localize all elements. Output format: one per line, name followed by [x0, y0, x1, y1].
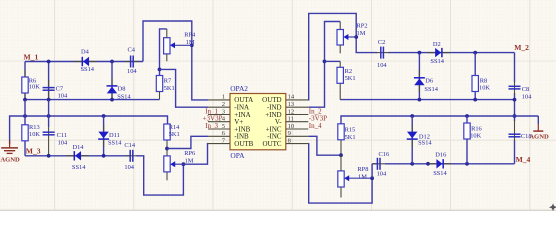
label C11 [57, 132, 68, 146]
svg-text:104: 104 [522, 93, 532, 100]
svg-text:5K1: 5K1 [164, 85, 175, 92]
wiper RP2 arrow [343, 34, 356, 40]
svg-text:M_2: M_2 [514, 43, 529, 52]
junction rail1 end [513, 98, 517, 102]
svg-text:5K1: 5K1 [345, 134, 356, 141]
label R15 [345, 127, 356, 141]
wire C7 branch [48, 62, 50, 100]
wire C2 to M_2 [389, 52, 515, 54]
label C16 [377, 151, 390, 177]
junction R2 top [323, 60, 327, 64]
wire wiper to C16 [372, 164, 377, 178]
svg-text:104: 104 [58, 139, 68, 146]
junction rail2 C11 [47, 114, 51, 118]
svg-text:D11: D11 [109, 132, 120, 139]
label AGND right [529, 134, 549, 141]
svg-text:1M: 1M [186, 39, 195, 46]
wire RP4 top to R7 [160, 29, 167, 76]
junction RP4 wiper node [190, 43, 194, 47]
op-amp U1 OPA2 body [230, 94, 286, 150]
wire R6 branch [24, 62, 26, 100]
label C14 [124, 142, 135, 171]
junction M_1 D8 [110, 60, 114, 64]
capacitor C16 [373, 158, 385, 170]
junction rail1 D8 [110, 98, 114, 102]
svg-text:R13: R13 [29, 124, 40, 131]
wire M_3 net [25, 155, 130, 157]
wire rail2-R14 [166, 124, 168, 156]
svg-text:SS14: SS14 [424, 86, 438, 93]
junction RP6 wiper node [182, 162, 186, 166]
svg-text:10K: 10K [29, 83, 40, 90]
net label -3V3P [309, 115, 327, 123]
svg-text:RP4: RP4 [184, 32, 196, 39]
svg-text:OPA: OPA [230, 151, 245, 160]
junction rail1 C7 [47, 98, 51, 102]
wire RP2 top to pin13 [308, 22, 340, 108]
net label M_2 [514, 43, 529, 52]
junction R14 bottom [165, 147, 169, 151]
label R6 value [29, 77, 40, 90]
svg-text:104: 104 [124, 164, 134, 171]
wire D8 branch [111, 62, 113, 100]
svg-text:C8: C8 [522, 86, 529, 93]
svg-text:R7: R7 [164, 77, 172, 84]
label RP4 [184, 32, 196, 47]
wiper RP8 arrow [344, 175, 372, 181]
junction rail1 R8 [473, 98, 477, 102]
net label In_1 [205, 107, 218, 115]
svg-text:D14: D14 [73, 144, 85, 151]
junction D6 top [418, 51, 422, 55]
wiper RP6 arrow [170, 161, 183, 167]
svg-text:D16: D16 [435, 152, 446, 159]
wire D6 branch [418, 53, 420, 100]
label RP8 [357, 166, 368, 180]
wire D12 branch [411, 116, 413, 164]
svg-text:SS14: SS14 [433, 170, 447, 177]
wire R16 branch [466, 116, 468, 164]
svg-text:104: 104 [377, 171, 387, 178]
svg-text:D2: D2 [433, 41, 441, 48]
svg-text:10K: 10K [470, 133, 481, 140]
svg-text:M_3: M_3 [26, 147, 41, 156]
wire rail1 left [25, 99, 160, 101]
resistor R2 [337, 61, 343, 99]
diode D4 [74, 57, 97, 66]
diode D8 [107, 78, 118, 100]
wire C14 loop [136, 156, 183, 195]
svg-text:R16: R16 [471, 126, 482, 133]
label C4 [127, 47, 137, 76]
label D16 [433, 152, 447, 178]
label D2 [430, 41, 444, 65]
svg-text:RP8: RP8 [357, 166, 368, 173]
svg-text:1M: 1M [357, 30, 366, 37]
wire pin14 loop [308, 13, 377, 100]
svg-text:1: 1 [222, 94, 225, 101]
resistor R16 [464, 123, 470, 139]
wire D11 branch [103, 116, 105, 156]
resistor R13 [22, 125, 28, 141]
diode D12 [407, 125, 418, 147]
diode D6 [414, 70, 425, 92]
capacitor C18 [509, 120, 521, 141]
diode D16 [429, 159, 452, 168]
junction M_4 R16 [465, 162, 469, 166]
svg-text:1M: 1M [185, 158, 194, 165]
junction M_4 D12 [410, 162, 414, 166]
capacitor C11 [43, 132, 55, 135]
wire C11 branch [48, 100, 50, 156]
wire pin9 loop [308, 136, 341, 155]
wire R8 branch [474, 53, 476, 100]
svg-text:M_4: M_4 [516, 155, 531, 164]
svg-text:SS14: SS14 [430, 58, 444, 65]
label D4 [81, 49, 95, 73]
svg-text:RP2: RP2 [357, 22, 368, 29]
pin numbers OPA2 [222, 94, 295, 145]
junction M_4 D16 anode [426, 162, 430, 166]
svg-text:OPA2: OPA2 [230, 84, 248, 93]
capacitor C14 [126, 150, 138, 162]
capacitor C7 [43, 80, 55, 100]
junction R8 top [473, 51, 477, 55]
potentiometer RP8 [338, 155, 344, 197]
label C2 [377, 39, 387, 69]
svg-text:12: 12 [288, 108, 295, 115]
pin names OPA2 [234, 96, 282, 148]
label C7 [56, 85, 68, 99]
power port AGND right [515, 116, 544, 131]
wire R7 top to pin2 [160, 69, 209, 107]
wire M_1 net horizontal [25, 61, 143, 63]
potentiometer RP2 [337, 22, 343, 54]
svg-text:SS14: SS14 [418, 140, 432, 147]
label RP6 [184, 150, 195, 165]
junction rail2 R13 [23, 114, 27, 118]
svg-text:D4: D4 [81, 49, 90, 56]
svg-text:2: 2 [222, 101, 225, 108]
wire rail2 right [341, 116, 515, 124]
junction rail1 D6 [418, 98, 422, 102]
svg-text:R2: R2 [345, 68, 352, 75]
net label In_2 [309, 107, 322, 115]
svg-text:SS14: SS14 [72, 164, 86, 171]
wire pin8 loop [308, 144, 372, 204]
wire C4 to top loop [143, 21, 208, 100]
label D6 [424, 77, 438, 93]
label R13 [29, 124, 40, 138]
junction R15 bottom [339, 153, 343, 157]
svg-text:D6: D6 [425, 77, 433, 84]
junction M_1 C7 [47, 60, 51, 64]
svg-text:10K: 10K [29, 131, 40, 138]
wire M_4 net [385, 163, 515, 165]
label D14 [72, 144, 86, 171]
resistor R6 [22, 70, 28, 100]
junction rail2 D12 [410, 114, 414, 118]
diode D11 [98, 125, 109, 147]
label D11 [108, 132, 122, 147]
label R2 [345, 68, 356, 82]
label R7 [164, 77, 175, 92]
svg-text:C4: C4 [128, 47, 136, 54]
resistor R15 [338, 124, 344, 155]
potentiometer RP4 [164, 29, 170, 61]
pins stubs OPA2 [208, 100, 308, 144]
capacitor C4 [125, 56, 139, 68]
svg-text:In_3: In_3 [205, 122, 218, 130]
svg-text:D8: D8 [118, 85, 126, 92]
svg-text:1M: 1M [358, 174, 367, 181]
diode D14 [66, 151, 89, 160]
label D8 [117, 85, 131, 100]
net label In_4 [309, 122, 322, 130]
net label M_3 [26, 147, 41, 156]
svg-text:SS14: SS14 [81, 66, 95, 73]
junction RP2 wiper node [354, 35, 358, 39]
svg-text:R14: R14 [169, 124, 180, 131]
wire M_2 vertical [514, 53, 516, 164]
svg-text:In_4: In_4 [309, 122, 322, 130]
wire R2 top branch [325, 60, 341, 62]
resistor R7 [156, 76, 162, 100]
svg-text:10K: 10K [479, 85, 490, 92]
resistor R14 [164, 124, 170, 140]
svg-text:SS14: SS14 [108, 140, 122, 147]
svg-text:14: 14 [288, 94, 295, 101]
label AGND left [0, 157, 20, 164]
junction RP8 wiper node [370, 176, 374, 180]
label C8 [522, 86, 532, 100]
capacitor C8 [509, 81, 521, 95]
junction M_3 D11 [102, 154, 106, 158]
net label M_1 [24, 52, 39, 61]
svg-text:C14: C14 [124, 142, 135, 149]
svg-text:5K1: 5K1 [169, 131, 180, 138]
label D12 [418, 133, 432, 146]
screen bottom edge [0, 210, 556, 211]
wiper RP4 arrow [170, 42, 192, 48]
label R8 [479, 77, 490, 91]
svg-text:104: 104 [58, 93, 68, 100]
wire R14 to pin6 [167, 136, 208, 148]
wire rail1 right [340, 99, 514, 101]
svg-text:OUTB: OUTB [234, 140, 253, 148]
svg-text:R15: R15 [345, 127, 356, 134]
svg-text:10: 10 [288, 123, 295, 130]
wire R13 branch [24, 100, 26, 156]
junction R7 top [158, 68, 162, 72]
junction rail2 R16 [465, 114, 469, 118]
potentiometer RP6 [164, 156, 170, 180]
resistor R8 [472, 76, 478, 92]
label R14 [169, 124, 180, 138]
net label M_4 [516, 155, 531, 164]
junction rail2 end [513, 114, 517, 118]
capacitor C2 [376, 47, 389, 59]
net label In_3 [205, 122, 218, 130]
svg-text:11: 11 [288, 116, 294, 123]
label R16 [470, 126, 482, 140]
svg-text:AGND: AGND [0, 157, 20, 164]
wire pin7 to wiper [183, 144, 208, 165]
svg-text:C7: C7 [56, 85, 64, 92]
svg-text:C11: C11 [57, 132, 67, 139]
svg-text:AGND: AGND [529, 134, 549, 141]
cursor mark [549, 204, 556, 212]
wire rail2 left [10, 116, 168, 144]
svg-text:OUTC: OUTC [263, 140, 282, 148]
svg-text:5K1: 5K1 [345, 75, 356, 82]
svg-text:104: 104 [377, 62, 387, 69]
svg-text:104: 104 [127, 68, 137, 75]
diode D2 [428, 48, 451, 57]
junction M_3 C11 [47, 154, 51, 158]
svg-text:R8: R8 [480, 77, 487, 84]
label OPA2 [230, 84, 248, 93]
ground AGND left [1, 140, 18, 153]
svg-text:C16: C16 [379, 151, 390, 158]
svg-text:C2: C2 [378, 39, 385, 46]
label RP2 [357, 22, 368, 37]
junction rail1 R6 [23, 98, 27, 102]
label OPA [230, 151, 245, 160]
net label +3V3P [203, 115, 223, 123]
svg-text:13: 13 [288, 101, 295, 108]
svg-text:RP6: RP6 [184, 150, 195, 157]
label C18 [521, 133, 532, 140]
svg-text:M_1: M_1 [24, 52, 39, 61]
junction rail2 D11 [102, 114, 106, 118]
